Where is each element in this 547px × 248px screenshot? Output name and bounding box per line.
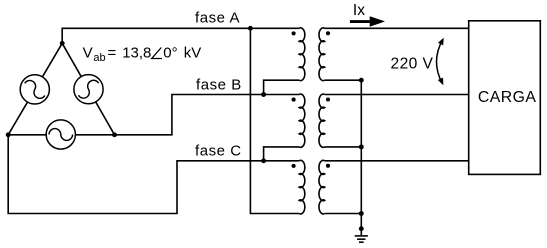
svg-text:=: = <box>108 44 117 61</box>
svg-text:220 V: 220 V <box>391 56 434 73</box>
svg-text:fase A: fase A <box>195 9 240 26</box>
svg-text:ab: ab <box>93 52 105 64</box>
svg-text:fase B: fase B <box>196 76 242 93</box>
svg-text:13,8: 13,8 <box>122 44 151 61</box>
svg-text:0°: 0° <box>163 44 177 61</box>
svg-text:fase C: fase C <box>195 143 242 160</box>
svg-text:Ix: Ix <box>353 2 365 19</box>
svg-text:CARGA: CARGA <box>478 89 536 106</box>
svg-text:V: V <box>83 44 93 61</box>
svg-text:kV: kV <box>184 44 202 61</box>
